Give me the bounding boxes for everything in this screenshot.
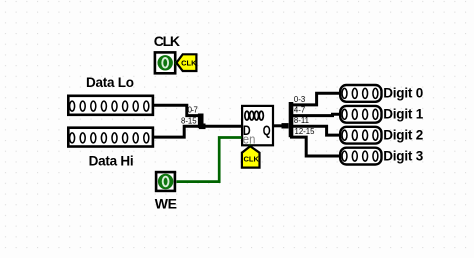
svg-text:0-3: 0-3 (294, 95, 305, 104)
wire branch 12-15 to Digit 3 (290, 137, 340, 156)
wire branch 8-11 to Digit 2 (290, 126, 340, 135)
output pin Digit 3 (4-bit) (340, 148, 381, 165)
splitter (merger) spine (199, 114, 206, 129)
tunnel CLK bottom (242, 146, 260, 167)
output pin Digit 1 (4-bit) (340, 106, 381, 123)
svg-text:Digit 0: Digit 0 (383, 86, 423, 101)
register value 0000 (245, 111, 264, 120)
svg-text:12-15: 12-15 (295, 127, 316, 136)
splitter origin stub (282, 123, 289, 128)
wire register Q to splitter origin (274, 124, 288, 127)
svg-text:CLK: CLK (243, 155, 259, 164)
splitter (distributor) spine (289, 102, 294, 137)
input pin CLK (155, 52, 175, 73)
wire branch 4-7 to Digit 1 (290, 114, 340, 115)
clock triangle (247, 144, 253, 149)
svg-text:WE: WE (155, 196, 177, 212)
wire merger output to register D (204, 125, 241, 128)
svg-text:Data Lo: Data Lo (86, 75, 134, 90)
output pin Digit 0 (4-bit) (340, 85, 381, 102)
input pin WE (156, 172, 175, 191)
svg-text:CLK: CLK (181, 58, 197, 67)
register U1 (242, 106, 273, 146)
svg-text:8-11: 8-11 (294, 116, 309, 125)
svg-text:8-15: 8-15 (181, 116, 197, 125)
input pin Data Hi (8-bit) (68, 128, 153, 147)
node CLK pin output (175, 61, 179, 65)
svg-text:Digit 3: Digit 3 (383, 148, 424, 163)
wire branch 0-3 to Digit 0 (290, 93, 340, 105)
wire Data Lo to merger branch 0-7 (153, 105, 199, 115)
tunnel CLK top (176, 54, 197, 71)
svg-text:Data Hi: Data Hi (89, 153, 134, 168)
svg-text:4-7: 4-7 (294, 106, 305, 115)
output pin Digit 2 (4-bit) (340, 127, 381, 144)
wire Data Hi to merger branch 8-15 (153, 126, 199, 137)
svg-text:en: en (243, 131, 256, 146)
svg-text:CLK: CLK (154, 33, 180, 49)
wire WE to register enable (green) (176, 138, 241, 182)
svg-text:Digit 1: Digit 1 (383, 107, 424, 122)
input pin Data Lo (8-bit) (68, 96, 153, 115)
svg-text:Q: Q (263, 122, 271, 138)
svg-text:0-7: 0-7 (188, 106, 198, 115)
svg-text:Digit 2: Digit 2 (383, 127, 423, 142)
